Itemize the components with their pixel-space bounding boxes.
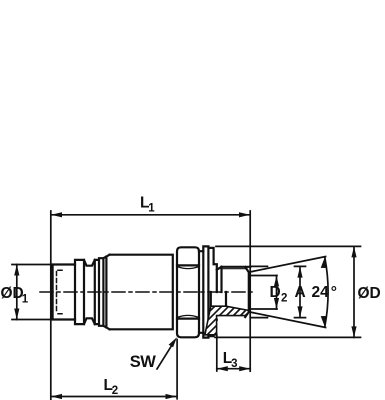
centerline bbox=[40, 291, 255, 293]
hex facet lines bbox=[177, 265, 199, 318]
svg-text:D: D bbox=[270, 284, 281, 301]
cone upper line bbox=[249, 257, 326, 273]
ring collar bbox=[75, 260, 84, 324]
neck hex to collar bbox=[199, 251, 203, 333]
body cylinder bbox=[110, 255, 173, 330]
body chamfer bbox=[103, 255, 109, 330]
svg-text:1: 1 bbox=[148, 203, 155, 215]
nipple bore hidden dashed bbox=[57, 270, 65, 313]
collar disc 2 bbox=[208, 248, 213, 336]
svg-text:A: A bbox=[295, 284, 306, 301]
dim L2 bbox=[176, 340, 178, 399]
svg-text:3: 3 bbox=[231, 358, 237, 370]
svg-text:1: 1 bbox=[22, 294, 29, 306]
24 deg arc bbox=[325, 257, 328, 326]
dim OD1 bbox=[12, 265, 51, 320]
dim OD right bbox=[215, 246, 361, 337]
thread chamfer left bbox=[217, 267, 222, 292]
dim A ext + line bbox=[250, 266, 305, 317]
thread root thin lines bbox=[221, 268, 247, 270]
dim L3 bbox=[216, 335, 218, 372]
dim L1 bbox=[51, 211, 250, 400]
svg-text:2: 2 bbox=[281, 293, 287, 305]
svg-text:°: ° bbox=[331, 284, 337, 301]
section hatch region bbox=[185, 301, 265, 354]
svg-text:2: 2 bbox=[112, 385, 118, 397]
hex nut SW bbox=[177, 247, 199, 337]
step bands bbox=[95, 258, 104, 326]
svg-text:24: 24 bbox=[312, 284, 330, 301]
shoulder bbox=[214, 264, 217, 320]
svg-text:SW: SW bbox=[130, 353, 157, 371]
SW leader bbox=[157, 342, 174, 369]
thread crest top bbox=[222, 267, 251, 317]
dim D2 ext lines bbox=[250, 276, 278, 310]
bore step below center bbox=[211, 292, 226, 306]
nipple tube outline bbox=[53, 265, 75, 320]
groove bbox=[84, 260, 95, 324]
svg-text:ØD: ØD bbox=[358, 285, 381, 302]
svg-text:ØD: ØD bbox=[1, 285, 24, 302]
collar disc 1 bbox=[203, 246, 208, 337]
hex chamfer arcs on middle face bbox=[177, 267, 198, 318]
cone lower line bbox=[249, 312, 326, 328]
